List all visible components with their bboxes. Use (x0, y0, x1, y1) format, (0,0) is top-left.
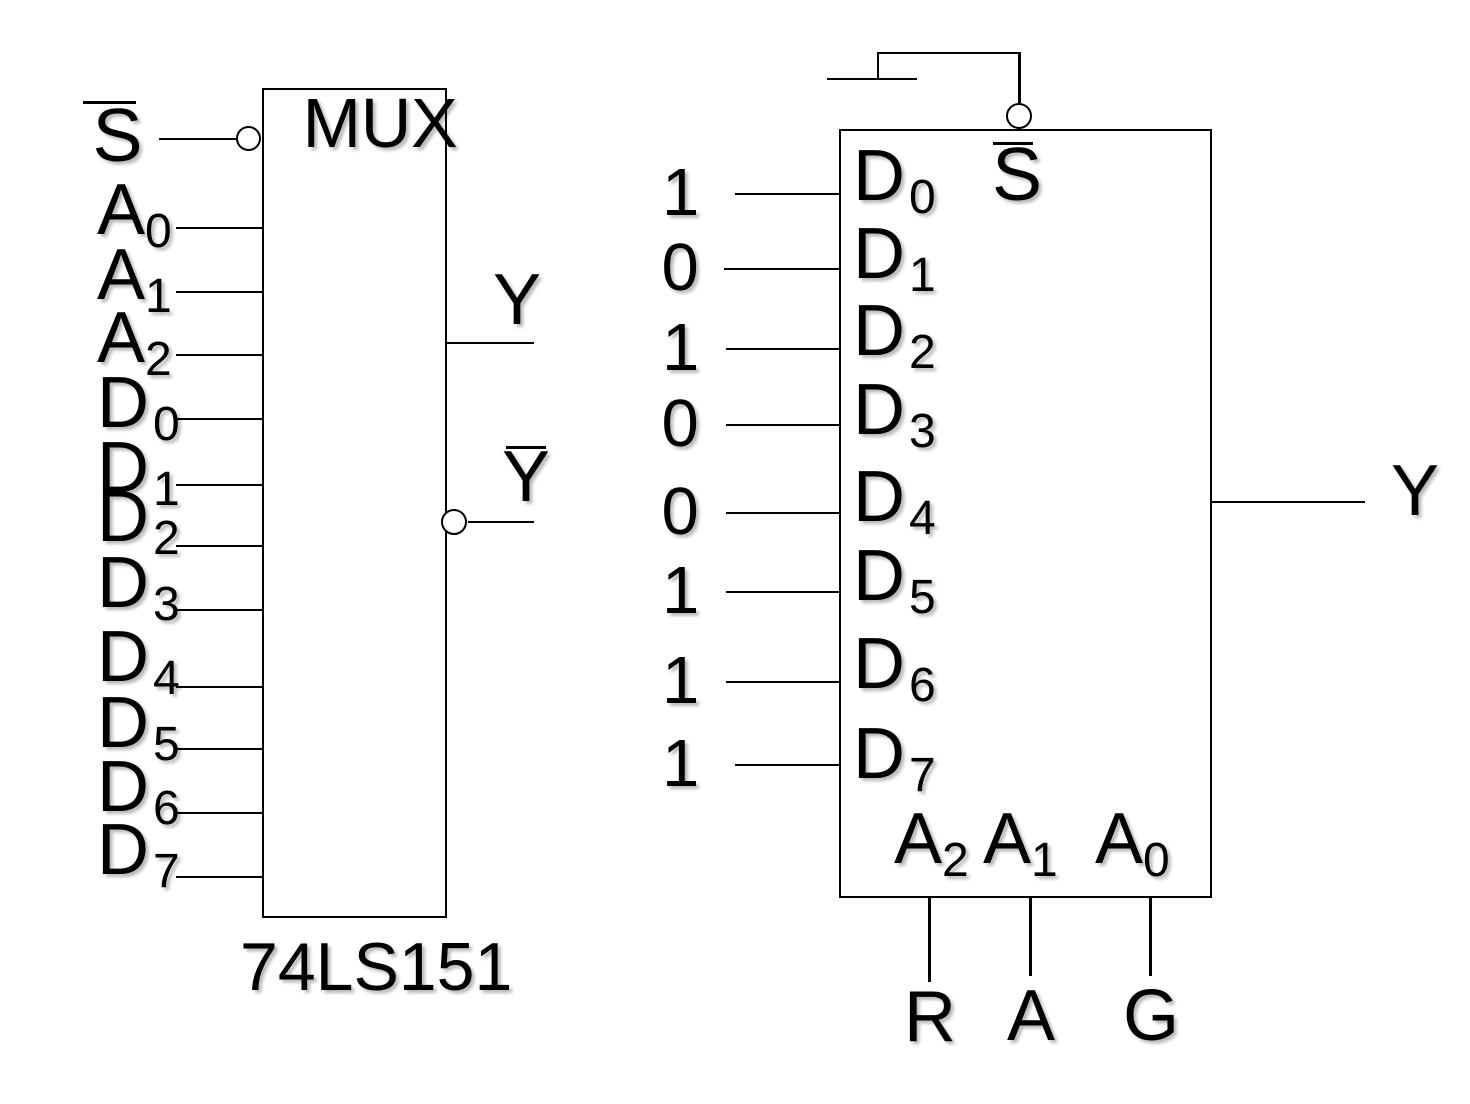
label MUX inside box top (303, 88, 458, 158)
overline of Y-bar label (506, 446, 546, 449)
wire D7 input to U1 (176, 876, 264, 879)
wire A2 to R (928, 896, 931, 982)
constant 1 on D5 input (662, 557, 699, 624)
wire down to S-bar bubble (1018, 53, 1021, 103)
pin label A1 of U2 (983, 803, 1058, 875)
constant 0 on D3 input (662, 390, 699, 457)
wire S-bar input to bubble (159, 138, 236, 141)
pin label A2 of U1 (97, 302, 172, 374)
pin label D5 of U2 (853, 540, 936, 612)
switch contact line (left) at S-bar net (827, 78, 917, 81)
wire constant 1 to D6 of U2 (726, 681, 841, 684)
wire A0 to G (1149, 896, 1152, 976)
pin label D4 of U1 (97, 621, 180, 693)
pin label D7 of U1 (97, 814, 180, 886)
IC U1 body (74LS151 MUX) box (262, 88, 447, 918)
constant 1 on D6 input (662, 647, 699, 714)
constant 1 on D2 input (662, 314, 699, 381)
constant 1 on D7 input (662, 730, 699, 797)
pin label S-bar (strobe, active low) (93, 98, 143, 173)
constant 1 on D0 input (662, 159, 699, 226)
wire A1 input to U1 (176, 291, 264, 294)
inverter bubble on S-bar pin of U2 (1006, 103, 1032, 129)
wire constant 0 to D1 of U2 (724, 268, 841, 271)
overline of S-bar label of U2 (993, 142, 1033, 145)
pin label D1 of U2 (853, 218, 936, 290)
inverter bubble on S input of U1 (236, 126, 262, 152)
pin label Y-bar output of U1 (502, 441, 550, 513)
wire D0 input to U1 (176, 418, 264, 421)
pin label D6 of U1 (97, 751, 180, 823)
pin label Y output of U1 (493, 264, 541, 336)
node label R (input to A2) (904, 981, 956, 1053)
pin label D1 of U1 (97, 432, 180, 504)
wire D5 input to U1 (176, 748, 264, 751)
wire D1 input to U1 (176, 484, 264, 487)
wire constant 1 to D2 of U2 (726, 348, 841, 351)
IC U2 body (74LS151) box (839, 129, 1212, 898)
node label Y output of U2 (1391, 455, 1439, 527)
pin label A0 of U2 (1095, 803, 1170, 875)
wire constant 1 to D0 of U2 (735, 193, 841, 196)
pin label D0 of U2 (853, 140, 936, 212)
node label A (input to A1) (1007, 980, 1055, 1052)
pin label D6 of U2 (853, 628, 936, 700)
wire Y output of U1 (446, 342, 534, 345)
caption 74LS151 under U1 (240, 933, 512, 1001)
wire A2 input to U1 (176, 354, 264, 357)
inverter bubble on Y-bar output of U1 (441, 509, 467, 535)
wire constant 1 to D5 of U2 (726, 591, 841, 594)
wire A1 to A (1029, 896, 1032, 976)
wire constant 0 to D4 of U2 (726, 512, 841, 515)
constant 0 on D1 input (662, 234, 699, 301)
wire D6 input to U1 (176, 812, 264, 815)
wire constant 0 to D3 of U2 (726, 424, 841, 427)
pin label A1 of U1 (97, 239, 172, 311)
constant 0 on D4 input (662, 478, 699, 545)
pin label D2 of U2 (853, 295, 936, 367)
wire D4 input to U1 (176, 686, 264, 689)
wire A0 input to U1 (176, 227, 264, 230)
pin label S-bar inside U2 (992, 137, 1042, 212)
wire Y-bar output of U1 (468, 521, 534, 524)
wire D2 input to U1 (176, 545, 264, 548)
pin label A0 of U1 (97, 174, 172, 246)
pin label D5 of U1 (97, 687, 180, 759)
wire Y output of U2 (1211, 501, 1365, 504)
overline of S-bar label (83, 101, 136, 104)
wire switch to S-bar pin (top run) (877, 52, 1021, 55)
node label G (input to A0) (1123, 980, 1179, 1052)
pin label D0 of U1 (97, 367, 180, 439)
pin label A2 of U2 (894, 803, 969, 875)
pin label D3 of U2 (853, 374, 936, 446)
switch lever riser (877, 52, 880, 80)
pin label D7 of U2 (853, 718, 936, 790)
pin label D3 of U1 (97, 547, 180, 619)
wire D3 input to U1 (176, 609, 264, 612)
pin label D2 of U1 (97, 481, 180, 553)
wire constant 1 to D7 of U2 (735, 764, 841, 767)
pin label D4 of U2 (853, 461, 936, 533)
